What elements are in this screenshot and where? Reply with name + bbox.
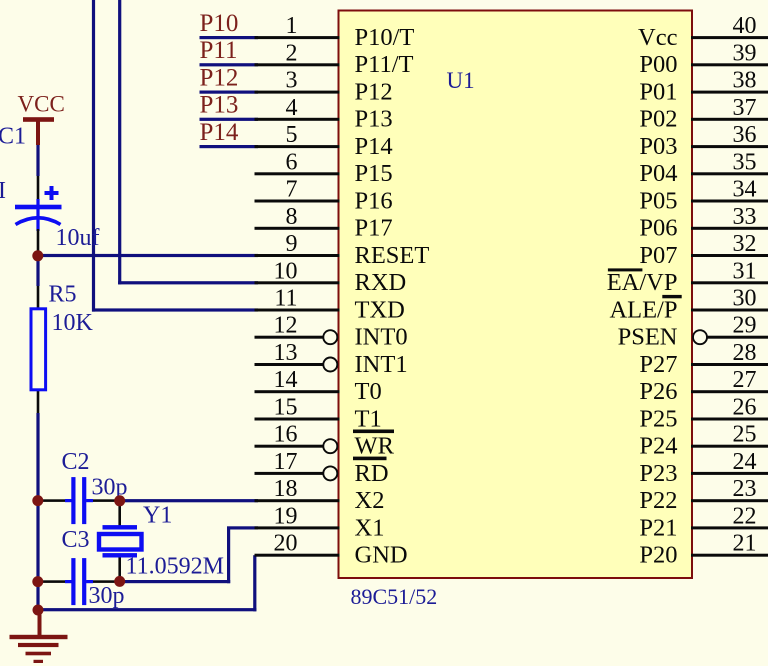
svg-text:GND: GND — [355, 542, 408, 569]
svg-text:26: 26 — [733, 395, 757, 421]
svg-text:PSEN: PSEN — [618, 324, 678, 351]
svg-text:10uf: 10uf — [56, 225, 100, 251]
svg-text:T1: T1 — [355, 405, 382, 432]
svg-text:6: 6 — [286, 149, 298, 175]
svg-text:C1: C1 — [0, 124, 26, 150]
svg-text:U1: U1 — [447, 68, 475, 93]
svg-text:29: 29 — [733, 313, 757, 339]
svg-text:27: 27 — [733, 367, 757, 393]
svg-text:P10/T: P10/T — [355, 24, 415, 51]
svg-text:35: 35 — [733, 149, 757, 175]
svg-text:P13: P13 — [200, 92, 239, 119]
svg-text:P11/T: P11/T — [355, 51, 414, 78]
svg-text:P10: P10 — [200, 10, 239, 37]
svg-text:39: 39 — [733, 40, 757, 66]
svg-text:10: 10 — [274, 258, 298, 284]
svg-text:P17: P17 — [355, 215, 393, 242]
svg-text:P13: P13 — [355, 106, 393, 133]
svg-text:C2: C2 — [62, 449, 90, 475]
svg-text:RD: RD — [355, 460, 389, 487]
svg-text:P16: P16 — [355, 187, 393, 214]
svg-text:1: 1 — [286, 13, 298, 39]
svg-text:P12: P12 — [200, 64, 239, 91]
svg-text:X2: X2 — [355, 487, 385, 514]
svg-text:ALE/P: ALE/P — [609, 296, 677, 323]
svg-text:21: 21 — [733, 531, 757, 557]
svg-text:28: 28 — [733, 340, 757, 366]
svg-text:13: 13 — [274, 340, 298, 366]
svg-text:VCC: VCC — [18, 92, 65, 117]
svg-text:36: 36 — [733, 122, 757, 148]
svg-text:18: 18 — [274, 476, 298, 502]
svg-text:8: 8 — [286, 204, 298, 230]
svg-text:T0: T0 — [355, 378, 382, 405]
svg-text:40: 40 — [733, 13, 757, 39]
svg-text:P25: P25 — [639, 405, 677, 432]
svg-text:Y1: Y1 — [143, 503, 172, 529]
svg-text:P24: P24 — [639, 433, 677, 460]
svg-text:9: 9 — [286, 231, 298, 257]
svg-text:2: 2 — [286, 40, 298, 66]
svg-text:89C51/52: 89C51/52 — [351, 584, 438, 609]
svg-text:22: 22 — [733, 503, 757, 529]
svg-text:P21: P21 — [639, 514, 677, 541]
svg-text:31: 31 — [733, 258, 757, 284]
svg-text:34: 34 — [733, 177, 757, 203]
svg-text:30: 30 — [733, 286, 757, 312]
svg-text:P05: P05 — [639, 187, 677, 214]
svg-text:P22: P22 — [639, 487, 677, 514]
svg-text:24: 24 — [733, 449, 757, 475]
svg-text:25: 25 — [733, 422, 757, 448]
svg-text:37: 37 — [733, 95, 757, 121]
svg-text:P15: P15 — [355, 160, 393, 187]
svg-text:16: 16 — [274, 422, 298, 448]
svg-text:P06: P06 — [639, 215, 677, 242]
svg-text:10K: 10K — [52, 310, 94, 336]
svg-text:P02: P02 — [639, 106, 677, 133]
svg-text:P23: P23 — [639, 460, 677, 487]
svg-text:P27: P27 — [639, 351, 677, 378]
svg-text:11.0592M: 11.0592M — [126, 554, 224, 580]
svg-text:5: 5 — [286, 122, 298, 148]
svg-text:38: 38 — [733, 68, 757, 94]
svg-text:P14: P14 — [200, 119, 239, 146]
svg-text:R5: R5 — [49, 282, 77, 308]
svg-text:30p: 30p — [89, 583, 125, 609]
svg-text:P14: P14 — [355, 133, 393, 160]
svg-text:33: 33 — [733, 204, 757, 230]
svg-text:19: 19 — [274, 503, 298, 529]
svg-text:P12: P12 — [355, 79, 393, 106]
svg-text:P04: P04 — [639, 160, 677, 187]
svg-text:P01: P01 — [639, 79, 677, 106]
svg-text:RXD: RXD — [355, 269, 407, 296]
svg-text:P07: P07 — [639, 242, 677, 269]
svg-text:I: I — [0, 178, 6, 204]
svg-text:EA/VP: EA/VP — [607, 269, 678, 296]
svg-text:17: 17 — [274, 449, 298, 475]
svg-text:INT1: INT1 — [355, 351, 408, 378]
svg-text:3: 3 — [286, 68, 298, 94]
svg-text:P03: P03 — [639, 133, 677, 160]
svg-text:11: 11 — [274, 286, 297, 312]
svg-text:Vcc: Vcc — [638, 24, 678, 51]
svg-text:RESET: RESET — [355, 242, 430, 269]
svg-text:23: 23 — [733, 476, 757, 502]
svg-text:14: 14 — [274, 367, 298, 393]
svg-text:4: 4 — [286, 95, 298, 121]
svg-text:INT0: INT0 — [355, 324, 408, 351]
svg-text:X1: X1 — [355, 514, 385, 541]
svg-text:15: 15 — [274, 395, 298, 421]
svg-text:C3: C3 — [62, 527, 90, 553]
svg-text:P00: P00 — [639, 51, 677, 78]
svg-text:7: 7 — [286, 177, 298, 203]
svg-text:WR: WR — [355, 433, 395, 460]
svg-text:P20: P20 — [639, 542, 677, 569]
svg-text:P11: P11 — [200, 37, 238, 64]
svg-text:32: 32 — [733, 231, 757, 257]
svg-text:P26: P26 — [639, 378, 677, 405]
svg-text:20: 20 — [274, 531, 298, 557]
svg-text:12: 12 — [274, 313, 298, 339]
svg-text:TXD: TXD — [355, 296, 405, 323]
